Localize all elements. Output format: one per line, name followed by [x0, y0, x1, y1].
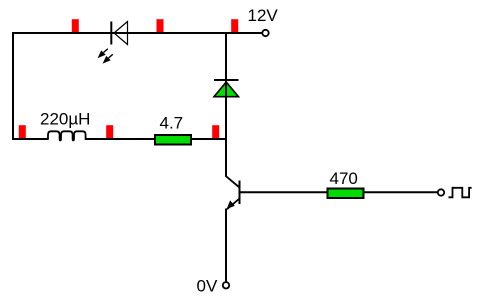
voltage bar top wire 2	[157, 19, 164, 32]
LED D1 cathode bar	[110, 22, 112, 45]
transistor Q1 base bar	[239, 181, 241, 205]
transistor Q1 collector diagonal	[226, 176, 240, 188]
wire middle horizontal between inductor and R 4.7	[85, 138, 154, 140]
LED D1 triangle	[114, 22, 128, 45]
diode D2 cathode bar	[214, 79, 239, 81]
svg-text:0V: 0V	[197, 276, 218, 295]
terminal 12V circle	[262, 30, 268, 36]
wire left vertical	[12, 32, 14, 139]
wire emitter vertical down to 0V	[225, 209, 227, 282]
svg-text:220µH: 220µH	[40, 110, 90, 129]
wire vertical from 12V rail through D2 to transistor collector	[225, 33, 227, 177]
voltage bar middle wire 3	[212, 125, 219, 138]
wire top horizontal (12V rail)	[13, 32, 263, 34]
wire base horizontal to R 470	[240, 191, 328, 193]
square wave source symbol	[449, 188, 472, 198]
svg-text:12V: 12V	[248, 6, 279, 25]
svg-text:4.7: 4.7	[160, 114, 184, 133]
svg-text:470: 470	[330, 169, 358, 188]
voltage bar top wire 1	[72, 19, 79, 32]
resistor R2 470	[328, 189, 364, 199]
inductor L1 220µH	[48, 131, 86, 140]
voltage bar middle wire 2	[106, 125, 113, 138]
transistor Q1 emitter diagonal with arrow	[227, 199, 240, 210]
LED D1 arrows (light emission)	[99, 49, 113, 63]
terminal input circle	[438, 189, 444, 195]
diode D2 green triangle	[214, 82, 239, 97]
voltage bar middle wire 1	[19, 125, 26, 138]
wire from R 470 to input terminal	[365, 191, 438, 193]
terminal 0V circle	[223, 282, 229, 288]
wire middle horizontal left of inductor	[12, 138, 48, 140]
resistor R1 4.7	[155, 135, 191, 145]
wire middle horizontal right of R 4.7 to junction	[192, 138, 227, 140]
voltage bar top wire 3	[231, 19, 238, 32]
